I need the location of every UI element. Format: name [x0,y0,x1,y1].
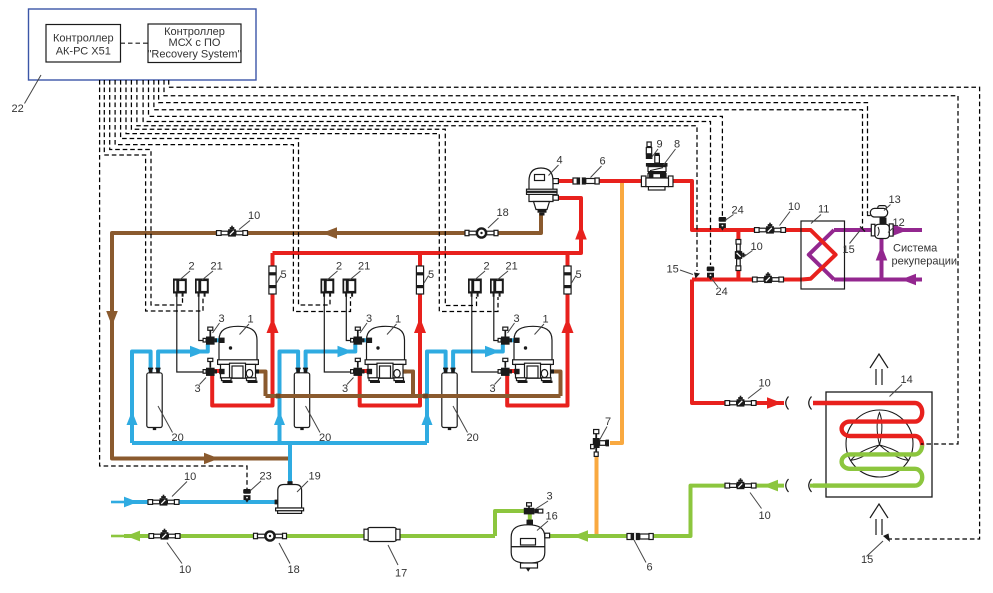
valve 10 on blue feed [148,495,179,506]
wire dashed to lower solenoid 24 [143,80,710,265]
svg-text:МСХ с ПО: МСХ с ПО [169,37,221,49]
wire purple recovery return [834,239,922,280]
pipe break marks green line [786,479,812,492]
wire black switch 2 to discharge valve [177,297,203,373]
svg-text:20: 20 [172,432,184,444]
arrow brown down [106,311,118,326]
svg-text:24: 24 [716,286,728,298]
valve 10 on green main [149,529,180,540]
svg-text:15: 15 [843,244,855,256]
svg-text:4: 4 [557,155,563,167]
svg-text:рекуперации: рекуперации [892,256,958,268]
wire red discharge loop and riser [212,253,272,406]
svg-text:17: 17 [395,568,407,580]
svg-text:АК-РС Х51: АК-РС Х51 [56,46,111,58]
sensor 15 marker on red [694,273,700,279]
wire dashed to comp1 switch 21 [104,80,203,311]
svg-text:19: 19 [309,471,321,483]
wire brown comp2 stub [404,372,414,397]
arrow brown left [322,227,337,239]
accumulator 20 [147,373,162,428]
wire dashed to solenoid 23 [100,80,247,489]
svg-text:9: 9 [657,139,663,151]
wire brown oil equalization line [266,394,561,398]
condenser sensor 15 arrowhead [883,534,890,543]
junction brown connectors [276,394,281,399]
svg-text:15: 15 [667,264,679,276]
svg-text:5: 5 [281,269,287,281]
svg-text:18: 18 [497,207,509,219]
condenser coil red part [813,403,922,445]
svg-text:"Recovery System": "Recovery System" [148,49,242,61]
solenoid 23 [243,489,251,503]
wire blue suction bus [132,443,427,482]
separator 4 [529,168,553,202]
wire dashed to comp1 switch 2 [110,80,183,305]
wire brown oil stub [256,372,266,397]
svg-text:12: 12 [893,217,905,229]
wire dashed to comp2 switch 2 [121,80,330,305]
valve 7 orange [594,430,599,434]
svg-text:6: 6 [647,562,653,574]
wire blue suction feed line to receiver 19 [124,500,278,504]
heat exchanger 11 box [801,221,845,289]
wire black switch 21 to suction valve [199,297,203,341]
sight glass 18 on brown line [465,228,498,237]
svg-text:21: 21 [211,261,223,273]
arrow green left condenser outlet [763,480,778,492]
svg-text:10: 10 [759,378,771,390]
receiver 16 [527,520,534,526]
port suction fitting [219,338,224,343]
svg-text:23: 23 [260,471,272,483]
arrow red up to separator [575,225,587,240]
wire dashed to comp2 switch 21 [115,80,350,312]
svg-text:Система: Система [893,243,938,255]
pipe break marks red line [786,397,812,410]
arrow red right condenser inlet [767,397,782,409]
pressure switch 21 [195,279,209,297]
arrow blue up on accumulator leg [127,411,138,425]
valve block 8 with pilot 9 [648,145,650,157]
svg-text:3: 3 [195,383,201,395]
valve 10 upper red [755,223,786,234]
svg-text:2: 2 [189,261,195,273]
arrow brown right [204,453,219,465]
wire dashed to comp3 switch 2 [131,80,476,306]
wire purple recovery supply [834,228,922,232]
svg-text:10: 10 [179,564,191,576]
svg-text:7: 7 [605,416,611,428]
valve 10 lower red [753,272,784,283]
valve 6 on green [627,533,653,540]
svg-text:10: 10 [184,471,196,483]
solenoid 24 upper [719,217,727,231]
valve 10 on brown line [217,226,248,237]
compressor 1 body [219,326,257,364]
controller MCX [148,24,241,63]
valve 10 green condenser [725,478,756,489]
controllers enclosure [29,9,257,80]
wire dashed to regulator 13 [159,80,868,213]
svg-text:8: 8 [674,139,680,151]
svg-text:6: 6 [600,156,606,168]
arrow blue right feed [124,497,138,508]
svg-text:10: 10 [759,510,771,522]
svg-text:14: 14 [901,374,913,386]
sensor 15 tick on purple [860,227,865,232]
valve 12 [880,218,887,225]
wire orange hot gas line to valve 7 [597,181,623,534]
svg-text:3: 3 [547,491,553,503]
valve 6 on red [573,177,599,184]
svg-text:11: 11 [818,204,829,216]
valve 3 suction [203,327,217,345]
wire dashed to condenser air sensor 15 [169,80,980,539]
wire dashed to condenser coil sensor [164,80,958,444]
wire red discharge bus [273,181,803,403]
wire blue suction loop via accumulator [132,340,220,443]
wire green liquid main line [124,486,784,536]
valve 10 bypass vertical [735,240,746,271]
valve 10 red condenser [725,396,756,407]
solenoid 24 lower [707,267,715,281]
heat exchanger purple chevron [809,230,834,280]
wire brown oil return line from separator [112,213,541,459]
svg-text:18: 18 [288,564,300,576]
air flow arrow top [870,354,888,385]
sight glass 18 on green main [254,531,287,540]
arrow purple right recovery supply [893,224,908,236]
port oil fitting [255,369,259,373]
wire dashed to upper solenoid 24 [149,80,723,216]
arrow blue right on suction line [190,346,205,358]
stub red valve to compressor port [212,369,220,373]
pressure switch 2 [173,279,187,297]
valve 3 discharge [203,358,217,376]
arrow green left main [126,531,140,542]
wire dashed to comp3 switch 21 [126,80,498,312]
dashed link between controllers [121,42,149,44]
svg-text:10: 10 [788,201,800,213]
fan [846,410,913,477]
wire dashed to purple line sensor 15 [154,80,863,228]
port discharge fitting [219,369,224,374]
svg-text:22: 22 [12,103,24,115]
compressor unit 2 [274,253,434,444]
svg-text:10: 10 [248,210,260,222]
sight glass 5 on riser [269,266,276,294]
svg-text:Контроллер: Контроллер [53,33,114,45]
svg-text:16: 16 [546,511,558,523]
arrow red up on riser [267,318,279,334]
condenser coil green part [813,445,922,485]
controller AK-PC X51 [46,25,121,63]
receiver 19 [275,500,278,505]
valve 3 on receiver 16 [527,503,532,506]
heat exchanger red chevron [802,230,836,280]
wire green condenser outlet [810,484,915,488]
air flow arrow bottom [870,504,888,535]
svg-text:1: 1 [248,314,254,326]
arrow green left into receiver [573,530,588,542]
arrow purple up [876,246,888,261]
wire dashed to red line sensor 15 [137,80,697,271]
compressor unit 3 [422,253,582,444]
svg-text:13: 13 [889,194,901,206]
filter drier 17 [367,528,397,542]
arrow purple left recovery return [901,274,916,286]
regulator 13 [868,212,871,216]
